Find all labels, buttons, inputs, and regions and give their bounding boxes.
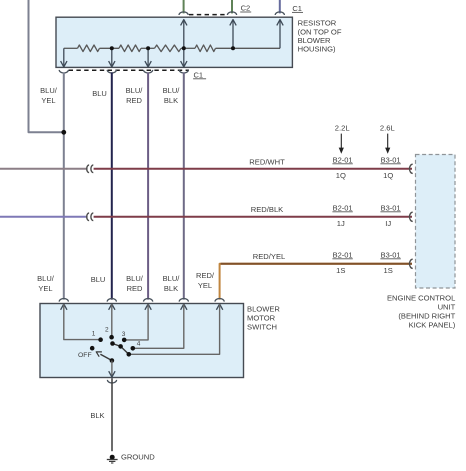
svg-text:RED: RED: [126, 96, 142, 105]
svg-text:(ON TOP OF: (ON TOP OF: [298, 27, 342, 36]
svg-text:BLU/: BLU/: [37, 274, 55, 283]
svg-text:SWITCH: SWITCH: [247, 323, 277, 332]
svg-text:YEL: YEL: [38, 284, 52, 293]
svg-text:BLU/: BLU/: [126, 86, 144, 95]
svg-text:C1: C1: [292, 4, 302, 13]
svg-text:1S: 1S: [336, 266, 345, 275]
svg-text:OFF: OFF: [78, 352, 92, 359]
svg-text:4: 4: [137, 341, 141, 348]
svg-text:C2: C2: [241, 4, 251, 13]
svg-text:RESISTOR: RESISTOR: [298, 19, 337, 28]
svg-text:B2-01: B2-01: [333, 251, 353, 260]
svg-text:UNIT: UNIT: [438, 302, 456, 311]
svg-text:B3-01: B3-01: [381, 204, 401, 213]
svg-text:BLU/: BLU/: [126, 274, 144, 283]
svg-text:1Q: 1Q: [336, 171, 346, 180]
svg-text:RED: RED: [127, 284, 143, 293]
svg-text:BLK: BLK: [164, 284, 178, 293]
svg-text:1J: 1J: [337, 219, 345, 228]
svg-text:1Q: 1Q: [383, 171, 393, 180]
svg-text:BLU/: BLU/: [40, 86, 58, 95]
svg-text:RED/BLK: RED/BLK: [251, 205, 284, 214]
svg-text:KICK PANEL): KICK PANEL): [409, 320, 456, 329]
svg-text:B3-01: B3-01: [381, 251, 401, 260]
svg-text:BLU: BLU: [91, 275, 106, 284]
svg-text:RED/YEL: RED/YEL: [253, 252, 286, 261]
svg-text:RED/WHT: RED/WHT: [249, 157, 285, 166]
svg-text:B2-01: B2-01: [333, 156, 353, 165]
svg-text:3: 3: [122, 331, 126, 338]
svg-text:ENGINE CONTROL: ENGINE CONTROL: [387, 293, 455, 302]
svg-text:1: 1: [92, 330, 96, 337]
svg-text:BLOWER: BLOWER: [298, 36, 331, 45]
svg-text:C1: C1: [194, 70, 204, 79]
svg-text:YEL: YEL: [41, 96, 55, 105]
svg-text:1S: 1S: [384, 266, 393, 275]
svg-text:BLU/: BLU/: [163, 86, 181, 95]
svg-text:2: 2: [105, 326, 109, 333]
svg-text:HOUSING): HOUSING): [298, 45, 336, 54]
svg-text:BLU/: BLU/: [163, 274, 181, 283]
svg-text:RED/: RED/: [196, 271, 215, 280]
svg-text:BLU: BLU: [92, 89, 107, 98]
svg-text:BLK: BLK: [164, 96, 178, 105]
svg-text:IJ: IJ: [385, 219, 391, 228]
svg-text:(BEHIND RIGHT: (BEHIND RIGHT: [398, 311, 455, 320]
svg-text:YEL: YEL: [198, 281, 212, 290]
svg-text:2.2L: 2.2L: [335, 124, 350, 133]
svg-text:BLOWER: BLOWER: [247, 304, 280, 313]
svg-text:2.6L: 2.6L: [380, 124, 395, 133]
svg-text:B2-01: B2-01: [333, 204, 353, 213]
svg-text:B3-01: B3-01: [381, 156, 401, 165]
svg-text:MOTOR: MOTOR: [247, 314, 276, 323]
svg-text:GROUND: GROUND: [121, 452, 155, 461]
svg-text:BLK: BLK: [90, 411, 104, 420]
